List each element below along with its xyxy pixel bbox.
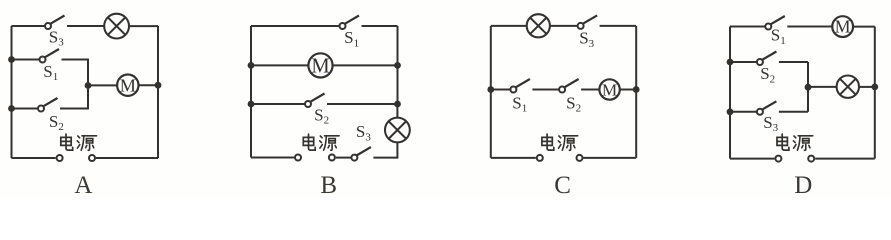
circuit D bottom-right wire bbox=[815, 158, 875, 160]
wire D lamp to right edge bbox=[859, 86, 875, 88]
junction B right S2 row bbox=[394, 101, 401, 108]
switch S3 bbox=[550, 25, 578, 27]
switch S2 bbox=[12, 108, 39, 110]
switch S2 bbox=[251, 103, 305, 105]
lamp L4 bbox=[837, 76, 859, 98]
svg-text:M: M bbox=[311, 56, 329, 78]
svg-text:S1: S1 bbox=[771, 26, 786, 47]
wire B right edge to lamp bbox=[396, 104, 398, 118]
circuit A top-right wire bbox=[129, 25, 158, 27]
wire C motor to right edge bbox=[620, 89, 636, 91]
switch S3 bbox=[12, 25, 46, 27]
junction C left row2 bbox=[487, 86, 494, 93]
power source terminals B bbox=[295, 155, 301, 161]
label power source D (dianyuan) bbox=[777, 134, 789, 150]
svg-text:D: D bbox=[794, 172, 812, 198]
svg-text:S2: S2 bbox=[314, 106, 329, 127]
lamp L2 bbox=[385, 118, 410, 143]
circuit D right edge wire bbox=[874, 27, 876, 159]
junction S1S2-M node bbox=[85, 82, 92, 89]
svg-text:S1: S1 bbox=[43, 62, 58, 83]
junction left-S1 bbox=[8, 56, 15, 63]
wire D lamp row left bbox=[808, 86, 837, 88]
svg-text:M: M bbox=[120, 76, 136, 96]
wire B motor row left bbox=[251, 64, 309, 66]
svg-text:S3: S3 bbox=[763, 113, 778, 134]
circuit A bottom-left wire bbox=[12, 157, 56, 159]
circuit D left edge wire bbox=[729, 27, 731, 159]
junction B right motor row bbox=[394, 62, 401, 69]
junction D left S3 row bbox=[727, 108, 734, 115]
switch S1 bbox=[491, 89, 511, 91]
wire motor to right edge bbox=[139, 84, 159, 86]
junction D left S2 row bbox=[727, 59, 734, 66]
svg-text:S2: S2 bbox=[566, 93, 581, 114]
junction B left motor row bbox=[248, 62, 255, 69]
circuit C left edge wire bbox=[490, 26, 492, 158]
wire S1-S2 connector vertical bbox=[87, 59, 89, 110]
power source terminals C bbox=[537, 155, 543, 161]
svg-text:B: B bbox=[320, 172, 337, 198]
svg-text:C: C bbox=[554, 172, 571, 198]
svg-text:S2: S2 bbox=[760, 64, 775, 85]
circuit A left edge wire bbox=[11, 26, 13, 158]
switch S1 bbox=[12, 59, 40, 61]
junction D right lamp row bbox=[871, 84, 878, 91]
wire D vertical connector bbox=[807, 62, 809, 112]
svg-text:S3: S3 bbox=[49, 27, 64, 48]
svg-text:M: M bbox=[602, 81, 617, 100]
svg-text:S3: S3 bbox=[356, 122, 371, 143]
junction right edge motor row bbox=[155, 82, 162, 89]
circuit D bottom-left wire bbox=[730, 158, 774, 160]
junction D node lamp row bbox=[805, 84, 812, 91]
power source terminals D bbox=[775, 156, 781, 162]
circuit B left edge wire bbox=[250, 26, 252, 158]
motor M3 bbox=[599, 79, 619, 99]
wire B motor row right bbox=[333, 64, 398, 66]
circuit C top-left wire bbox=[491, 25, 527, 27]
circuit A right edge wire (top) bbox=[157, 26, 159, 158]
svg-text:S2: S2 bbox=[49, 112, 64, 133]
switch S3 bbox=[336, 157, 352, 159]
wire D motor to right edge bbox=[853, 26, 875, 28]
lamp L3 bbox=[527, 14, 550, 37]
motor M4 bbox=[832, 16, 853, 37]
circuit C right edge wire bbox=[635, 26, 637, 158]
motor M2 bbox=[308, 53, 332, 77]
junction C right row2 bbox=[633, 86, 640, 93]
svg-text:S3: S3 bbox=[579, 29, 594, 50]
circuit C bottom-left wire bbox=[491, 157, 536, 159]
label power source B (dianyuan) bbox=[303, 134, 315, 150]
switch S1 bbox=[251, 25, 340, 27]
junction left-S2 bbox=[8, 105, 15, 112]
power source terminals A bbox=[57, 155, 63, 161]
wire B lamp to bottom corner bbox=[396, 142, 398, 157]
label power source C (dianyuan) bbox=[542, 134, 554, 150]
wire junction to motor bbox=[88, 84, 117, 86]
switch S1 bbox=[730, 26, 765, 28]
switch S3 bbox=[730, 111, 757, 113]
switch S2 bbox=[730, 61, 757, 63]
lamp L1 bbox=[104, 14, 129, 39]
circuit C bottom-right wire bbox=[584, 157, 637, 159]
motor M1 bbox=[117, 75, 138, 96]
svg-text:A: A bbox=[74, 172, 92, 198]
label power source A (dianyuan) bbox=[61, 134, 73, 150]
circuit B right edge upper wire bbox=[397, 26, 399, 104]
circuit A bottom-right wire bbox=[96, 157, 158, 159]
circuit B bottom-left wire bbox=[251, 157, 294, 159]
svg-text:S1: S1 bbox=[512, 93, 527, 114]
junction B left S2 row bbox=[248, 101, 255, 108]
svg-text:S1: S1 bbox=[344, 28, 359, 49]
switch S2 bbox=[533, 89, 559, 91]
svg-text:M: M bbox=[835, 17, 851, 37]
